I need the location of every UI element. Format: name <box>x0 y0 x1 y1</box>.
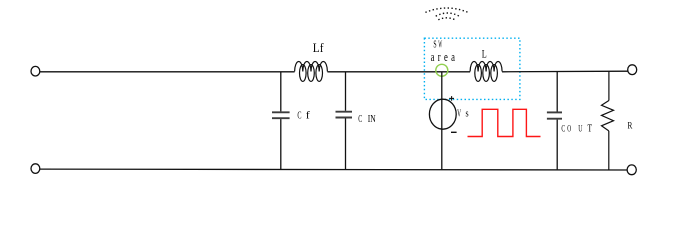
minus sign <box>451 131 457 133</box>
wire bottom rail <box>40 168 627 171</box>
wire top rail mid <box>327 71 470 73</box>
svg-text:C: C <box>358 112 362 124</box>
svg-text:Lf: Lf <box>313 41 324 54</box>
svg-text:R: R <box>628 119 633 130</box>
terminal output bottom <box>627 165 636 175</box>
svg-text:s: s <box>466 108 470 119</box>
svg-text:T: T <box>588 122 593 133</box>
wire top rail right <box>502 70 627 73</box>
svg-text:C: C <box>297 109 301 121</box>
inductor L <box>470 62 502 82</box>
resistor R <box>602 71 614 169</box>
svg-text:U: U <box>578 123 582 134</box>
plus sign <box>449 96 454 101</box>
terminal input top <box>31 66 40 76</box>
EMI radiation dashed arcs <box>425 8 468 20</box>
inductor Lf <box>295 61 328 81</box>
svg-text:f: f <box>306 110 310 121</box>
wire Vs branch <box>441 72 443 170</box>
svg-text:IN: IN <box>368 113 376 125</box>
capacitor CIN <box>336 72 353 170</box>
capacitor Cf <box>272 72 290 170</box>
svg-text:V: V <box>457 106 462 119</box>
SW area dotted box <box>424 38 520 99</box>
terminal input bottom <box>31 164 40 174</box>
voltage source Vs <box>429 99 456 129</box>
capacitor COUT <box>547 72 562 170</box>
svg-text:area: area <box>431 51 459 65</box>
svg-text:S: S <box>433 37 436 49</box>
svg-text:L: L <box>482 48 487 61</box>
node SW green circle <box>436 64 448 76</box>
svg-text:C: C <box>561 123 565 134</box>
terminal output top <box>628 65 637 75</box>
switching waveform <box>468 109 541 136</box>
svg-text:W: W <box>438 38 442 50</box>
wire top rail left <box>40 71 295 73</box>
svg-text:O: O <box>567 123 571 134</box>
